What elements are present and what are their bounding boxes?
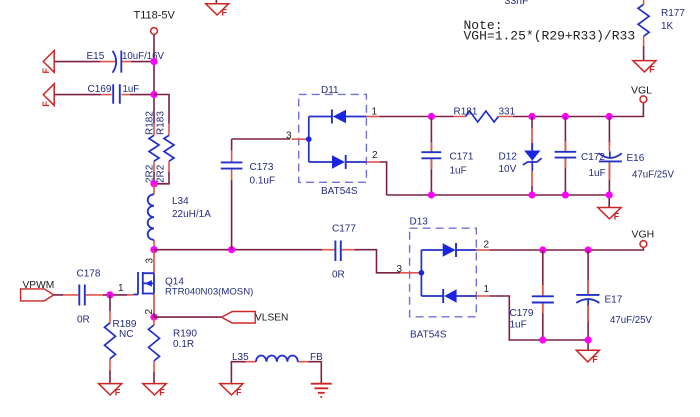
junction: rail/D12	[528, 113, 535, 120]
junction: C173 top of rail	[228, 246, 235, 253]
svg-text:VGL: VGL	[631, 85, 652, 97]
ground F (left, C169 row, rotated)	[41, 84, 54, 107]
capacitor E17 47uF/25V (polarized)	[576, 250, 652, 340]
svg-text:E17: E17	[605, 295, 623, 306]
junction: VGH rail/C179	[539, 246, 546, 253]
svg-text:F: F	[41, 68, 51, 74]
wire: VPWM to C178	[54, 294, 127, 296]
ground earth (FB right)	[311, 384, 332, 397]
svg-text:0R: 0R	[332, 270, 345, 281]
wire: D11 pin2 stub	[366, 161, 379, 163]
terminal VGL	[631, 85, 652, 103]
svg-text:L35: L35	[232, 352, 249, 363]
junction: bottom rail/C172	[562, 191, 569, 198]
svg-text:F: F	[614, 211, 620, 221]
wire: E15 row	[54, 61, 154, 63]
junction: gate node	[106, 291, 113, 298]
wire: D13 pin1 drop and VGH bottom rail	[490, 296, 588, 350]
ground (top middle)	[206, 0, 229, 18]
svg-text:2: 2	[484, 240, 490, 251]
svg-text:2: 2	[372, 150, 378, 161]
capacitor C171 1uF	[421, 117, 473, 196]
svg-text:R182: R182	[145, 111, 156, 135]
ground F (VGL block)	[598, 208, 621, 222]
resistor R177 1K	[638, 0, 685, 46]
svg-text:C178: C178	[77, 269, 101, 280]
svg-text:0.1R: 0.1R	[173, 339, 194, 350]
svg-text:VGH=1.25*(R29+R33)/R33: VGH=1.25*(R29+R33)/R33	[464, 29, 636, 44]
svg-text:D13: D13	[410, 217, 429, 228]
port VPWM	[21, 280, 55, 301]
svg-text:1uF: 1uF	[123, 84, 140, 95]
svg-text:BAT54S: BAT54S	[321, 186, 358, 197]
wire: R177 to ground	[643, 46, 645, 60]
capacitor C179 1uF	[510, 250, 554, 340]
ground F (R189)	[99, 384, 122, 398]
svg-text:F: F	[592, 354, 598, 364]
svg-text:10V: 10V	[499, 164, 517, 175]
capacitor C178 0R	[63, 269, 103, 326]
wire: R189 column	[109, 295, 111, 384]
wire: VGH rail	[490, 247, 644, 250]
junction: rail/E16	[606, 113, 613, 120]
svg-text:D11: D11	[321, 85, 339, 96]
svg-text:BAT54S: BAT54S	[410, 330, 447, 341]
svg-text:47uF/25V: 47uF/25V	[632, 170, 675, 181]
svg-text:NC: NC	[119, 329, 133, 340]
resistor R189 NC	[105, 311, 137, 371]
zener diode D12 10V	[499, 117, 542, 196]
wire: drain rail to C177	[154, 250, 400, 273]
terminal T118-5V	[134, 10, 176, 35]
svg-text:1K: 1K	[661, 21, 674, 32]
svg-text:VGH: VGH	[632, 229, 655, 241]
resistor R190 0.1R	[149, 318, 198, 372]
ground F (R190)	[143, 384, 167, 398]
ground F (left, E15 row, rotated)	[41, 51, 54, 74]
junction: bottom/C179	[539, 336, 546, 343]
capacitor E15 (polarized 10uF/16V)	[87, 51, 165, 73]
svg-text:2R2: 2R2	[145, 164, 156, 183]
svg-text:3: 3	[286, 131, 292, 142]
svg-text:R190: R190	[173, 329, 197, 340]
svg-text:0.1uF: 0.1uF	[250, 176, 276, 187]
resistor R182 2R2	[145, 111, 160, 183]
svg-text:0R: 0R	[77, 315, 90, 326]
junction: source node	[150, 314, 157, 321]
diode pack D13 BAT54S	[397, 217, 490, 341]
svg-text:1: 1	[484, 284, 490, 295]
terminal VGH	[632, 229, 655, 248]
svg-text:1uF: 1uF	[589, 168, 606, 179]
svg-text:F: F	[222, 8, 228, 18]
junction: E15/+5V	[150, 58, 157, 65]
svg-text:FB: FB	[310, 352, 323, 363]
svg-text:331: 331	[499, 107, 516, 118]
svg-text:RTR040N03(MOSN): RTR040N03(MOSN)	[165, 287, 253, 298]
svg-text:3: 3	[145, 258, 156, 264]
svg-text:F: F	[159, 388, 165, 398]
junction: rail/C171	[428, 113, 435, 120]
note text	[464, 18, 636, 44]
junction: bottom rail/E16	[606, 191, 613, 198]
wire: D11 pin2 drop	[379, 162, 386, 195]
wire: D13 pin2 stub	[476, 249, 489, 251]
port VLSEN	[222, 312, 289, 324]
junction: bottom rail/C171	[428, 191, 435, 198]
svg-text:VLSEN: VLSEN	[255, 313, 288, 324]
resistor R183 2R2	[156, 111, 175, 183]
svg-text:1uF: 1uF	[450, 166, 467, 177]
inductor L35 FB	[232, 352, 323, 363]
ground F (VGH block)	[576, 350, 599, 364]
svg-text:L34: L34	[172, 196, 189, 207]
transistor Q14 RTR040N03(MOSN)	[133, 251, 253, 315]
svg-text:33nF: 33nF	[505, 0, 529, 7]
wire: source node to VLSEN and R190	[154, 313, 222, 383]
wire: gate stub	[127, 294, 133, 296]
capacitor C172 1uF	[555, 117, 606, 196]
svg-text:F: F	[115, 388, 121, 398]
svg-text:R181: R181	[454, 107, 478, 118]
svg-text:1: 1	[118, 283, 124, 294]
svg-text:C169: C169	[88, 84, 112, 95]
svg-text:F: F	[41, 101, 51, 107]
svg-text:F: F	[236, 388, 242, 398]
wire: VGL bottom rail	[387, 195, 610, 207]
svg-text:F: F	[649, 64, 655, 74]
svg-text:E15: E15	[87, 51, 105, 62]
inductor L34 22uH/1A	[148, 184, 212, 250]
ground F (L35 left)	[220, 384, 243, 398]
wire: C169 row	[54, 94, 154, 96]
svg-text:10uF/16V: 10uF/16V	[122, 51, 165, 62]
wire: VGL top rail	[379, 103, 643, 117]
svg-text:2R2: 2R2	[156, 164, 167, 183]
junction: drain node	[150, 246, 157, 253]
svg-text:T118-5V: T118-5V	[134, 10, 176, 22]
capacitor C169 1uF	[88, 84, 140, 104]
ground F (R177)	[633, 61, 656, 75]
svg-text:C179: C179	[510, 308, 534, 319]
diode pack D11 BAT54S	[286, 85, 378, 197]
wire: +5V main vertical	[153, 35, 155, 185]
svg-text:3: 3	[397, 264, 403, 275]
wire: D13 pin1 stub	[476, 295, 489, 297]
svg-text:R183: R183	[156, 111, 167, 135]
svg-text:D12: D12	[499, 151, 518, 162]
svg-text:C171: C171	[450, 151, 474, 162]
svg-text:1uF: 1uF	[510, 320, 527, 331]
wire: C173 column	[232, 139, 290, 250]
wire: D13 pin3 stub	[400, 272, 421, 274]
resistor R181 331	[454, 107, 516, 123]
junction: C169/+5V/branch	[150, 91, 157, 98]
svg-text:VPWM: VPWM	[23, 280, 55, 291]
svg-text:C173: C173	[250, 162, 274, 173]
capacitor E16 47uF/25V (polarized)	[599, 117, 675, 196]
svg-text:C177: C177	[332, 224, 356, 235]
wire: L35 left leg	[231, 362, 321, 384]
junction: bottom rail/D12	[528, 191, 535, 198]
svg-text:47uF/25V: 47uF/25V	[610, 315, 653, 326]
svg-text:R177: R177	[661, 8, 685, 19]
junction: bottom/E17	[585, 336, 592, 343]
svg-text:22uH/1A: 22uH/1A	[172, 209, 211, 220]
capacitor C177 0R	[322, 224, 356, 281]
wire: branch to R183	[154, 95, 169, 184]
wire: D11 pin1 stub	[366, 116, 379, 118]
junction: R pair bottom	[150, 180, 157, 187]
junction: VGH rail/E17	[585, 246, 592, 253]
svg-text:E16: E16	[627, 153, 645, 164]
capacitor C173 0.1uF	[221, 151, 275, 187]
junction: rail/C172	[562, 113, 569, 120]
